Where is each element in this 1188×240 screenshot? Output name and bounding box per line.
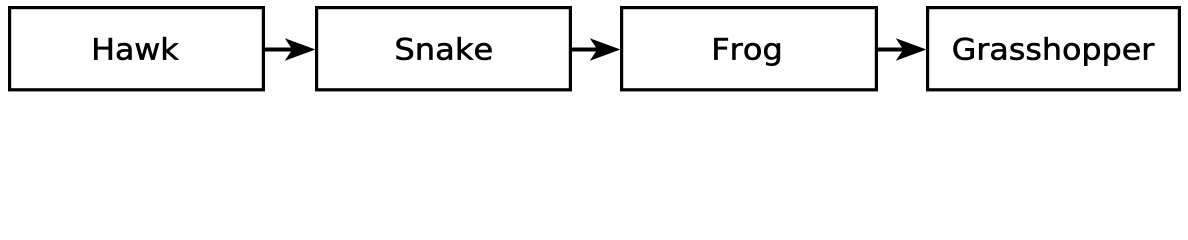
box Grasshopper xyxy=(928,8,1180,90)
wire Snake to Frog xyxy=(572,48,599,52)
label Grasshopper xyxy=(954,37,1155,66)
box Snake xyxy=(317,8,571,90)
label Snake xyxy=(397,37,492,60)
wire Frog to Grasshopper xyxy=(878,48,905,52)
label Frog xyxy=(714,38,780,66)
box Frog xyxy=(622,8,877,90)
box Hawk xyxy=(10,8,264,90)
arrowhead Snake to Frog xyxy=(590,38,621,60)
wire Hawk to Snake xyxy=(265,48,294,52)
arrowhead Frog to Grasshopper xyxy=(896,38,927,60)
label Hawk xyxy=(94,37,178,60)
arrowhead Hawk to Snake xyxy=(285,38,316,60)
